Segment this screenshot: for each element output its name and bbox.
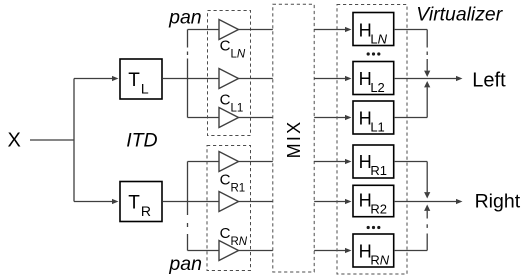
wire pan-L branch vertical lower solid — [187, 59, 189, 118]
wire branch to CL1 — [188, 117, 220, 119]
wire input split vertical — [73, 79, 75, 202]
arrow into HL2 — [345, 76, 352, 81]
arrow up to right sum — [424, 205, 430, 211]
wire MIX to HR1 — [314, 161, 346, 163]
amp CR1 triangle — [219, 152, 239, 172]
wire pan-R branch vertical lower solid — [187, 234, 189, 251]
svg-text:pan: pan — [168, 253, 202, 275]
wire from X to split — [30, 139, 74, 141]
block HR2 — [353, 185, 394, 216]
wire branch to CR1 — [188, 161, 220, 163]
svg-text:Left: Left — [472, 69, 506, 91]
block HLN — [353, 13, 394, 46]
arrow right output — [456, 199, 463, 204]
arrow into HL1 — [345, 115, 352, 120]
wire HLN output — [395, 29, 428, 31]
wire HR1 down solid — [426, 162, 428, 193]
amp CRN triangle — [219, 241, 239, 261]
wire HRN output — [395, 250, 428, 252]
block HL2 — [353, 62, 394, 95]
wire HLN down lower solid — [426, 59, 428, 71]
amp CL2 triangle — [219, 69, 239, 89]
arrow into HLN — [345, 27, 352, 32]
svg-text:pan: pan — [168, 7, 202, 29]
amp CR2 triangle — [219, 192, 239, 212]
wire CRN to MIX — [239, 250, 273, 252]
wire CLN to MIX — [239, 29, 273, 31]
svg-text:Right: Right — [475, 191, 521, 213]
wire CL1 to MIX — [239, 117, 273, 119]
wire MIX to HL2 — [314, 78, 346, 80]
wire pan-L branch dot — [187, 52, 189, 56]
wire CL2 to MIX — [239, 78, 273, 80]
wire TL output — [163, 78, 219, 80]
wire HL1 output — [395, 117, 428, 119]
arrow down to left sum — [424, 71, 430, 77]
dots between HR2 and HRN — [367, 226, 370, 229]
wire CR2 to MIX — [239, 201, 273, 203]
arrow into TL — [112, 76, 119, 81]
amp CL1 triangle — [219, 108, 239, 128]
wire MIX to HL1 — [314, 117, 346, 119]
wire MIX to HR2 — [314, 201, 346, 203]
block HRN — [353, 234, 394, 267]
arrow up to left sum — [424, 81, 430, 87]
svg-text:Virtualizer: Virtualizer — [416, 4, 503, 26]
pan box right — [207, 146, 251, 271]
block HL1 — [353, 101, 394, 134]
svg-text:MIX: MIX — [284, 120, 304, 159]
block TR — [120, 182, 162, 222]
wire MIX to HLN — [314, 29, 346, 31]
wire HLN down dot — [426, 52, 428, 56]
arrow down to right sum — [424, 192, 430, 198]
svg-text:X: X — [8, 130, 21, 152]
wire HL1 up solid — [426, 87, 428, 117]
pan box left — [208, 11, 251, 136]
wire MIX to HRN — [314, 250, 346, 252]
wire branch to CRN — [188, 250, 220, 252]
arrow into TR — [112, 199, 119, 204]
wire branch to CLN — [188, 29, 220, 31]
block HR1 — [353, 145, 394, 178]
MIX box — [273, 4, 314, 272]
wire CR1 to MIX — [239, 161, 273, 163]
wire pan-R branch dot — [187, 223, 189, 227]
wire HR1 output — [395, 161, 428, 163]
wire TR output — [163, 201, 219, 203]
wire HRN up dot — [426, 224, 428, 228]
virtualizer box — [337, 5, 407, 275]
block TL — [120, 59, 162, 99]
wire into TR — [74, 201, 113, 203]
arrow into HRN — [345, 248, 352, 253]
wire HRN up solid — [426, 234, 428, 251]
arrow into HR2 — [345, 199, 352, 204]
wire left output — [395, 78, 457, 80]
dots between HLN and HL2 — [367, 52, 370, 55]
arrow left output — [456, 76, 463, 81]
wire right output — [395, 201, 457, 203]
arrow into HR1 — [345, 159, 352, 164]
wire pan-R branch vertical upper solid — [187, 162, 189, 216]
wire pan-L branch vertical upper solid — [187, 30, 189, 48]
wire into TL — [74, 78, 113, 80]
wire HRN up upper solid — [426, 211, 428, 219]
wire HLN down solid — [426, 30, 428, 48]
amp CLN triangle — [219, 20, 239, 40]
svg-text:ITD: ITD — [126, 130, 157, 152]
